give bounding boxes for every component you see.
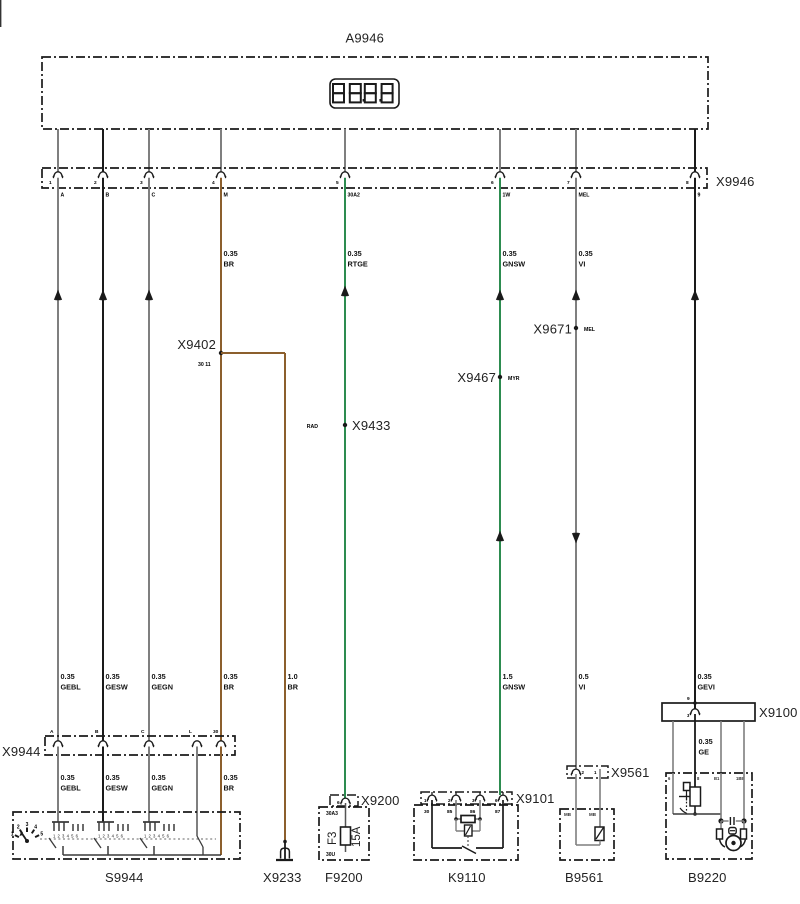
wire RTGE from X9946.5 to X9200 [344,178,346,798]
svg-text:0.35: 0.35 [224,773,238,782]
X9946 pin 5 socket [340,172,349,178]
X9946 pin 2 socket [98,172,107,178]
relay coil body [461,816,475,823]
svg-text:B: B [106,193,110,199]
svg-text:1: 1 [11,831,14,837]
wire GNSW from X9946.6 to X9101.4 [499,178,501,795]
svg-text:15A: 15A [351,826,363,847]
wire GESW from X9946.2 to X9944.B [102,178,104,741]
svg-text:123456: 123456 [144,834,171,839]
motor node right [741,818,746,823]
relay coil lead from pin 2 [455,800,457,819]
svg-text:9: 9 [687,696,690,702]
X9100 pin socket [690,709,699,715]
svg-text:4: 4 [212,180,215,186]
wire net B from A9946 to X9946 pin [102,129,104,172]
svg-text:0.35: 0.35 [224,672,238,681]
B9220 left internal wire [672,773,674,814]
svg-text:X9101: X9101 [516,791,555,806]
wire through fuse F3 [345,803,347,852]
svg-text:GEGN: GEGN [152,683,174,692]
X9944 pin L socket [192,741,201,747]
svg-text:9: 9 [698,193,701,199]
svg-text:0.5: 0.5 [579,672,589,681]
svg-text:85: 85 [447,809,453,815]
svg-text:3: 3 [140,180,143,186]
svg-text:0.35: 0.35 [579,249,593,258]
X9944 pin A socket [53,741,62,747]
svg-text:GESW: GESW [106,683,128,692]
svg-text:X9433: X9433 [352,418,391,433]
svg-text:RTGE: RTGE [348,260,368,269]
svg-text:A: A [61,193,65,199]
rotary switch unit S9944 box [13,812,240,859]
direction arrow on wire at x=103 [100,291,107,300]
connector strip X9944 [45,736,235,755]
relay contact bottom left [432,847,462,849]
svg-text:X9944: X9944 [2,744,41,759]
B9220 motor feed right [743,773,745,821]
svg-text:87: 87 [495,809,501,815]
B9561 bottom internal wire [576,844,600,846]
direction arrow on wire at x=695 [692,291,699,300]
coil node 86 [478,817,482,821]
svg-text:MB: MB [564,812,572,817]
svg-text:A9946: A9946 [346,31,385,46]
svg-text:30: 30 [424,809,430,815]
B9220 motor feed left [720,773,722,821]
wire GE from X9100 to B9220 pin2 [694,714,696,787]
X9101 pin 1 socket [427,795,436,801]
X9200 pin socket [341,798,350,804]
connector strip X9100 [662,703,755,721]
svg-text:123456: 123456 [98,834,125,839]
temperature sensor element B9561 [595,827,604,841]
X9101 pin 6 socket [498,795,507,801]
direction arrow on wire at x=149 [146,291,153,300]
svg-text:5: 5 [40,831,43,837]
B9220 bottom internal wire [673,813,721,815]
X9946 pin 1 socket [53,172,62,178]
svg-text:GESW: GESW [106,784,128,793]
sensor B9561 box [560,809,614,860]
svg-text:X9671: X9671 [533,322,572,337]
multi-position contact group at x=58 in S9944 [49,822,83,855]
svg-text:2: 2 [94,180,97,186]
brush lead left [720,821,722,829]
blower motor M with brushes [717,829,723,839]
svg-text:X9233: X9233 [263,870,302,885]
svg-text:L: L [189,729,192,735]
X9101 pin 3 stub [479,792,481,795]
sensor element lower lead [599,841,601,846]
svg-text:1W: 1W [503,193,511,199]
svg-text:0.35: 0.35 [61,672,75,681]
svg-text:0.35: 0.35 [698,672,712,681]
wire GEVI from X9946.8 to X9100 [694,178,696,709]
svg-text:X9100: X9100 [759,705,798,720]
svg-text:B9220: B9220 [688,870,727,885]
B9220 internal switch blade [680,808,687,814]
svg-text:B: B [95,729,99,735]
svg-text:4: 4 [34,825,37,831]
svg-text:C: C [141,729,145,735]
display icon in A9946 (7-segment LCD) [330,79,399,108]
direction arrow on wire at x=58 [55,291,62,300]
connector strip X9946 [42,168,707,188]
resistor lower lead [694,806,696,814]
wire net 9 from A9946 to X9946 pin [694,129,696,172]
X9944 pin 30 socket [216,741,225,747]
relay coil horizontal right [475,818,480,820]
svg-text:BR: BR [224,683,235,692]
relay contact lead from pin 6 [502,800,504,848]
svg-text:GNSW: GNSW [503,683,526,692]
svg-text:GE: GE [699,748,710,757]
svg-text:F3: F3 [327,832,339,845]
svg-text:86: 86 [470,809,476,815]
svg-text:8: 8 [686,180,689,186]
motor node left [718,818,723,823]
svg-text:0.35: 0.35 [152,672,166,681]
svg-text:0.35: 0.35 [503,249,517,258]
direction arrow down on VI wire [573,533,580,542]
wire net A from A9946 to X9946 pin [57,129,59,172]
svg-text:0.35: 0.35 [348,249,362,258]
X9946 pin 3 socket [144,172,153,178]
control stage wiper arm [679,796,694,798]
X9946 pin 7 socket [571,172,580,178]
ground X9233 symbol [283,840,287,844]
control stage sense square [684,783,691,791]
X9100 pin junction [693,701,697,705]
control stage dotted link [686,791,688,811]
svg-text:0.35: 0.35 [106,773,120,782]
inline connector X9433 junction [343,423,347,427]
X9101 pin 6 stub [502,792,504,795]
X9101 pin 2 stub [455,792,457,795]
relay coil lead from pin 3 [479,800,481,819]
inline connector X9467 junction [498,375,502,379]
svg-text:6: 6 [337,800,340,806]
svg-text:3: 3 [26,822,29,828]
suppression element with diagonal [465,825,473,836]
relay K9110 box [414,805,518,860]
wire net C from A9946 to X9946 pin [148,129,150,172]
X9101 pin 3 socket [475,795,484,801]
wire BR branch horizontal at X9402 [221,352,285,354]
svg-text:1: 1 [49,180,52,186]
multi-position contact group at x=103 in S9944 [94,822,128,855]
svg-text:K9110: K9110 [448,870,486,885]
direction arrow on wire at x=500 [497,291,504,300]
svg-text:X9402: X9402 [177,337,216,352]
svg-text:X9561: X9561 [611,765,650,780]
wire GESW X9944 to S9944 [102,747,104,823]
wire net 1W from A9946 to X9946 pin [499,129,501,172]
wire GEBL from X9946.1 to X9944.A [57,178,59,741]
svg-text:F9200: F9200 [325,870,363,885]
B9561 left internal wire [575,774,577,845]
mechanical linkage dashed line in S9944 [40,838,216,840]
X9561 pin 2 stub [599,769,601,778]
X9944 pin C socket [144,741,153,747]
svg-text:0.35: 0.35 [152,773,166,782]
svg-text:0.35: 0.35 [61,773,75,782]
single switch contact in S9944 (pin L) [197,836,203,847]
svg-text:GEBL: GEBL [61,784,82,793]
multi-position contact group at x=149 in S9944 [140,822,174,855]
X9946 pin 4 socket [216,172,225,178]
svg-text:1.5: 1.5 [503,672,513,681]
svg-text:30A2: 30A2 [348,193,361,199]
wire from X9100 to B9220 pin1 [672,721,674,773]
svg-text:MEL: MEL [579,193,591,199]
wire net M (to X9402) from A9946 to X9946 pin [220,129,222,172]
relay contact lead from pin 1 [431,800,433,848]
branch node X9402 [219,351,223,355]
suppressor bottom link [456,830,480,832]
svg-text:X9946: X9946 [716,174,755,189]
connector X9200 [330,795,358,806]
relay contact bottom right [476,847,503,849]
svg-text:30: 30 [213,729,219,735]
svg-text:GEGN: GEGN [152,784,174,793]
svg-text:MEL: MEL [584,327,596,333]
svg-text:VI: VI [579,683,586,692]
svg-text:1.0: 1.0 [288,672,298,681]
svg-text:X9467: X9467 [457,370,496,385]
wire from X9100 to B9220 pin3 [720,721,722,773]
svg-text:30 11: 30 11 [198,362,211,368]
direction arrow on RTGE wire [342,287,349,296]
svg-text:S9944: S9944 [105,870,144,885]
wire from X9100 to B9220 pin4 [743,721,745,773]
B9220 node at resistor foot [693,812,697,816]
fuse F3 body [341,827,351,845]
svg-text:123456: 123456 [53,834,80,839]
X9101 pin 1 stub [431,792,433,795]
svg-text:30U: 30U [326,852,336,858]
svg-text:B9561: B9561 [565,870,604,885]
svg-text:BR: BR [224,784,235,793]
fuse carrier F9200 box [319,807,369,860]
suppressor right lead [479,819,481,831]
wire VI from X9946.7 to X9561.1 [575,178,577,769]
relay switch blade [462,846,476,854]
svg-text:GEBL: GEBL [61,683,82,692]
svg-text:M: M [224,193,228,199]
B9561 right internal wire [599,778,601,827]
wire BR from X9946.4 to X9944.30 [220,178,222,741]
wire GEGN from X9946.3 to X9944.C [148,178,150,741]
common bus wire in S9944 [63,854,221,856]
svg-text:BR: BR [288,683,299,692]
svg-text:GNSW: GNSW [503,260,526,269]
svg-text:30A3: 30A3 [326,811,338,817]
svg-text:C: C [152,193,156,199]
wire net 30A2 from A9946 to X9946 pin [344,129,346,172]
svg-text:0.35: 0.35 [699,737,713,746]
svg-text:RAD: RAD [307,424,318,430]
wire 1.0 BR down to ground X9233 [284,353,286,841]
blower unit B9220 box [666,773,752,859]
image edge artifact top-left [0,0,2,27]
svg-text:MB: MB [589,812,597,817]
wire L X9944 to S9944 switch [196,747,198,837]
X9561 pin 1 socket [571,769,580,775]
svg-text:VI: VI [579,260,586,269]
wire GEGN X9944 to S9944 [148,747,150,823]
relay actuator dashed link [467,836,469,847]
svg-text:BR: BR [224,260,235,269]
X9101 pin 2 socket [451,795,460,801]
svg-text:X9200: X9200 [361,793,400,808]
relay coil horizontal left [456,818,461,820]
svg-text:0.35: 0.35 [224,249,238,258]
svg-text:A: A [50,729,54,735]
suppression capacitor across motor [721,820,729,822]
svg-text:0.35: 0.35 [106,672,120,681]
X9946 pin 8 socket [690,172,699,178]
control resistor element [690,787,701,806]
inline connector X9671 junction [574,326,578,330]
svg-text:B1: B1 [714,776,720,781]
direction arrow on wire at x=576 [573,291,580,300]
direction arrow up on GNSW wire [497,532,504,541]
svg-text:6: 6 [491,180,494,186]
svg-text:7: 7 [567,180,570,186]
wire GEBL X9944 to S9944 [57,747,59,823]
wire net MEL from A9946 to X9946 pin [575,129,577,172]
X9946 pin 6 socket [495,172,504,178]
connector strip X9101 [421,792,512,804]
control unit A9946 box [42,57,708,129]
svg-text:1BB: 1BB [736,776,744,781]
suppressor left lead [455,819,457,831]
brush lead right [743,821,745,829]
svg-text:5: 5 [336,180,339,186]
rotary selector symbol in S9944 [11,822,44,843]
connector strip X9561 [567,766,608,778]
X9944 pin B socket [98,741,107,747]
wire BR X9944 to S9944 bus [220,747,222,856]
svg-text:2: 2 [17,825,20,831]
svg-text:MYR: MYR [508,376,520,382]
svg-text:GEVI: GEVI [698,683,715,692]
coil node 85 [454,817,458,821]
